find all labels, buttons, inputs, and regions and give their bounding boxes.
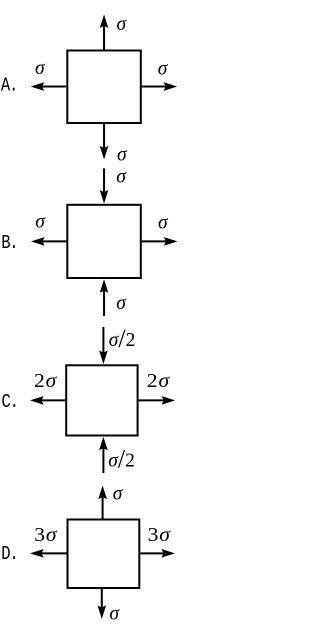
svg-text:σ/2: σ/2 [109, 324, 136, 353]
svg-text:A.: A. [1, 76, 17, 97]
svg-text:2σ: 2σ [34, 369, 57, 392]
svg-text:σ: σ [109, 604, 120, 624]
svg-text:σ: σ [116, 167, 127, 188]
svg-text:2σ: 2σ [147, 369, 170, 392]
svg-text:σ: σ [158, 58, 169, 79]
svg-text:B.: B. [1, 234, 17, 255]
svg-text:σ: σ [158, 213, 169, 234]
svg-text:σ: σ [35, 212, 46, 233]
svg-text:σ: σ [35, 58, 46, 79]
svg-text:σ/2: σ/2 [108, 444, 135, 473]
svg-text:D.: D. [1, 545, 17, 566]
svg-text:3σ: 3σ [34, 523, 57, 546]
svg-text:σ: σ [117, 145, 128, 166]
svg-text:σ: σ [116, 293, 127, 314]
svg-text:σ: σ [113, 483, 124, 504]
svg-text:3σ: 3σ [148, 523, 171, 546]
svg-text:C.: C. [2, 393, 18, 414]
svg-text:σ: σ [117, 14, 128, 35]
